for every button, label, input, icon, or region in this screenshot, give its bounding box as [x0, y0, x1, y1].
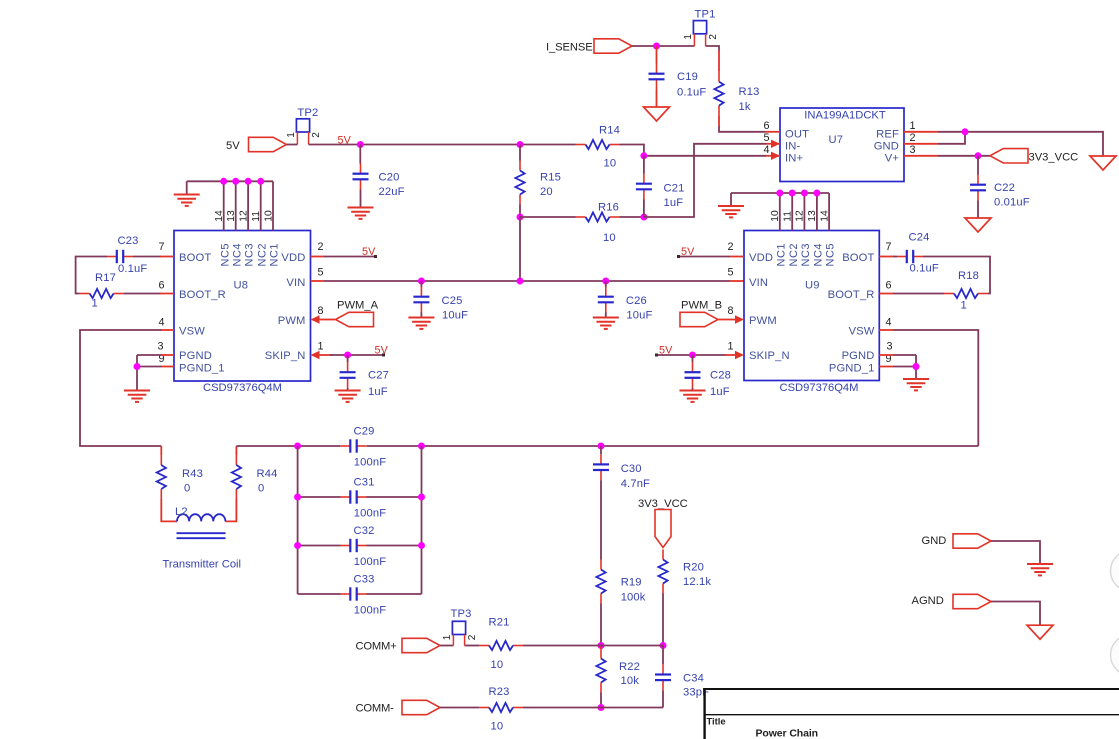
svg-text:NC3: NC3	[244, 243, 256, 267]
resistor R22	[596, 646, 640, 693]
svg-text:2: 2	[467, 634, 478, 640]
pin 2 stub (U8 VDD)	[311, 256, 325, 258]
wire IN- net to U7	[644, 144, 766, 217]
svg-text:100nF: 100nF	[354, 605, 386, 617]
svg-text:100nF: 100nF	[354, 556, 386, 568]
svg-text:NC2: NC2	[256, 243, 268, 267]
svg-text:3: 3	[886, 341, 892, 353]
svg-text:VIN: VIN	[286, 277, 305, 289]
svg-text:4: 4	[763, 144, 769, 156]
wire R13 to U7 OUT	[718, 116, 720, 126]
svg-text:R43: R43	[182, 468, 203, 480]
junction C32 left	[294, 542, 301, 549]
junction VIN/R15	[517, 278, 524, 285]
svg-text:NC5: NC5	[825, 243, 837, 267]
capacitor C21	[636, 156, 685, 217]
ground (REF net)	[1090, 156, 1116, 170]
pin 9 stub (U9 PGND_1)	[879, 366, 893, 368]
junction PGND (U9)	[913, 363, 920, 370]
svg-text:10: 10	[263, 210, 274, 222]
pin 1 arrow (U8 SKIP_N)	[311, 351, 333, 359]
svg-text:I_SENSE: I_SENSE	[546, 42, 593, 54]
junction 5V/C20	[357, 141, 364, 148]
svg-text:C20: C20	[379, 172, 400, 184]
capacitor C32	[341, 525, 387, 568]
pin 2 stub (U9 VDD)	[730, 256, 744, 258]
junction NC bus (U8)	[220, 178, 264, 185]
svg-text:3V3_VCC: 3V3_VCC	[638, 498, 688, 510]
svg-text:R19: R19	[621, 577, 642, 589]
svg-text:R23: R23	[489, 686, 510, 698]
ground (U8 PGND)	[124, 391, 150, 402]
svg-text:100k: 100k	[621, 592, 646, 604]
pin 6 stub (U8 BOOT_R)	[160, 293, 174, 295]
svg-text:10uF: 10uF	[626, 310, 652, 322]
svg-text:R16: R16	[598, 202, 619, 214]
junction C32 right	[418, 542, 425, 549]
test point TP3	[442, 608, 478, 646]
svg-text:3V3_VCC: 3V3_VCC	[1029, 152, 1079, 164]
pin 2 stub (U7 GND)	[904, 143, 938, 145]
wire PGND net (U8)	[137, 355, 162, 390]
wire COMM+ to TP3	[440, 645, 453, 647]
wire C19 to ground	[656, 90, 658, 108]
wire GND port to ground	[991, 541, 1040, 564]
svg-text:5: 5	[763, 132, 769, 144]
junction R22/comm- rail	[598, 704, 605, 711]
svg-text:2: 2	[311, 132, 322, 138]
pin 3 stub (U7 V+)	[904, 155, 938, 157]
svg-text:R20: R20	[683, 562, 704, 574]
junction VIN/C25	[418, 278, 425, 285]
wire C32 row	[298, 545, 422, 547]
svg-text:VIN: VIN	[749, 277, 768, 289]
svg-text:BOOT_R: BOOT_R	[179, 289, 226, 301]
svg-text:C27: C27	[368, 370, 389, 382]
svg-text:10: 10	[491, 721, 504, 733]
svg-text:1uF: 1uF	[710, 386, 730, 398]
resistor R44	[232, 446, 278, 499]
IC U8 CSD97376Q4M	[157, 231, 323, 395]
svg-text:8: 8	[727, 305, 733, 317]
svg-text:CSD97376Q4M: CSD97376Q4M	[780, 382, 859, 394]
junction C31 right	[418, 494, 425, 501]
svg-text:10k: 10k	[621, 675, 640, 687]
wire R44 to coil	[225, 499, 236, 521]
pin 5 stub (U7 IN-)	[766, 140, 780, 148]
wire C31 row	[298, 496, 422, 498]
svg-text:6: 6	[158, 280, 164, 292]
svg-text:NC3: NC3	[800, 243, 812, 267]
wire BOOT net (U8)	[76, 257, 161, 294]
svg-text:Title: Title	[707, 716, 726, 727]
junction rail/cap-bank left	[294, 443, 301, 450]
svg-text:NC2: NC2	[788, 243, 800, 267]
svg-text:2: 2	[317, 241, 323, 253]
svg-text:GND: GND	[874, 141, 899, 153]
svg-text:C33: C33	[354, 574, 375, 586]
wire comm+ rail to R20 column	[601, 645, 663, 647]
title block border	[703, 688, 1119, 739]
port COMM-	[356, 700, 441, 714]
ground (C28)	[680, 391, 706, 402]
pin 8 arrow (U9 PWM)	[718, 315, 744, 323]
wire cap bank right column	[421, 446, 423, 594]
pin 1 arrow (U9 SKIP_N)	[726, 351, 744, 359]
svg-text:REF: REF	[876, 129, 899, 141]
resistor R23	[479, 686, 523, 733]
svg-text:4.7nF: 4.7nF	[621, 478, 650, 490]
resistor R13	[714, 72, 759, 116]
junction REF/GND	[962, 128, 969, 135]
svg-text:1k: 1k	[739, 101, 751, 113]
svg-text:0.1uF: 0.1uF	[910, 263, 939, 275]
port 5V	[226, 137, 287, 152]
svg-text:PGND_1: PGND_1	[829, 363, 875, 375]
junction R19/comm+ rail	[598, 642, 605, 649]
svg-text:BOOT_R: BOOT_R	[828, 289, 875, 301]
svg-text:C29: C29	[354, 426, 375, 438]
svg-text:V+: V+	[885, 153, 899, 165]
svg-text:11: 11	[251, 211, 262, 222]
junction C21/IN-	[640, 214, 647, 221]
svg-text:1uF: 1uF	[664, 197, 684, 209]
wire BOOT net (U9)	[893, 257, 990, 294]
junction rail/C30	[598, 443, 605, 450]
pin numbers 10-14 (U9 top)	[770, 210, 830, 222]
svg-text:VSW: VSW	[179, 326, 205, 338]
svg-text:C22: C22	[994, 182, 1015, 194]
port AGND	[912, 594, 992, 608]
svg-text:3: 3	[157, 341, 163, 353]
wire R15 junction to VIN rail	[519, 217, 521, 281]
svg-text:5V: 5V	[375, 345, 389, 357]
junction C31 left	[294, 494, 301, 501]
resistor R18	[944, 270, 988, 312]
wire C34 to comm- rail	[662, 690, 664, 707]
svg-text:7: 7	[885, 241, 891, 253]
wire R17 to BOOT_R	[124, 293, 161, 295]
IC U7 INA199A1DCKT	[763, 108, 915, 182]
svg-text:IN-: IN-	[785, 141, 800, 153]
svg-text:INA199A1DCKT: INA199A1DCKT	[804, 110, 886, 122]
pin 6 stub (U9 BOOT_R)	[879, 293, 893, 295]
port GND	[922, 534, 992, 548]
wire GND pin to REF net	[938, 132, 965, 144]
wire VDD 5V (U8)	[324, 256, 377, 258]
svg-text:R21: R21	[489, 617, 510, 629]
wire coil output rail	[236, 445, 340, 447]
svg-text:CSD97376Q4M: CSD97376Q4M	[203, 382, 282, 394]
capacitor C20	[353, 145, 405, 208]
svg-text:Power Chain: Power Chain	[756, 728, 819, 739]
svg-text:1: 1	[92, 298, 98, 310]
svg-text:C26: C26	[626, 295, 647, 307]
svg-text:10uF: 10uF	[442, 310, 468, 322]
pin 8 arrow (U8 PWM)	[311, 315, 336, 323]
capacitor C19	[649, 46, 707, 99]
svg-text:R17: R17	[95, 272, 116, 284]
svg-text:SKIP_N: SKIP_N	[265, 350, 306, 362]
svg-text:C34: C34	[683, 673, 704, 685]
svg-text:13: 13	[807, 210, 818, 222]
wire cap bank left column	[297, 446, 299, 594]
svg-text:C30: C30	[621, 463, 642, 475]
svg-text:100nF: 100nF	[354, 457, 386, 469]
wire SKIP_N 5V (U9)	[656, 354, 726, 356]
wire R21 to R19 column	[523, 645, 601, 647]
svg-text:BOOT: BOOT	[179, 252, 211, 264]
svg-text:R14: R14	[599, 125, 620, 137]
svg-text:12: 12	[238, 210, 249, 222]
svg-text:U8: U8	[234, 280, 249, 292]
capacitor C23	[107, 235, 147, 275]
svg-text:C19: C19	[677, 71, 698, 83]
wire U8 NC bus	[187, 181, 273, 230]
junction I_SENSE/C19	[653, 43, 660, 50]
ground (U9 NC bus)	[718, 206, 744, 217]
svg-text:1: 1	[317, 341, 323, 353]
capacitor C30	[593, 446, 650, 490]
svg-text:PWM: PWM	[749, 315, 777, 327]
svg-text:C21: C21	[664, 183, 685, 195]
svg-text:NC1: NC1	[775, 243, 787, 267]
svg-text:BOOT: BOOT	[842, 252, 874, 264]
svg-text:R18: R18	[958, 270, 979, 282]
svg-text:L2: L2	[175, 506, 188, 518]
capacitor C22	[970, 156, 1030, 218]
svg-text:3: 3	[909, 144, 915, 156]
ground (C27)	[335, 391, 361, 402]
svg-text:TP3: TP3	[451, 608, 472, 620]
svg-text:R13: R13	[739, 86, 760, 98]
svg-text:2: 2	[708, 34, 719, 40]
svg-text:1: 1	[909, 120, 915, 132]
resistor R19	[596, 560, 645, 604]
svg-text:PGND_1: PGND_1	[179, 363, 225, 375]
wire BOOT_R to R18	[893, 293, 944, 295]
resistor R43	[157, 446, 203, 499]
svg-text:NC5: NC5	[219, 243, 231, 267]
pin numbers 14-10 (U8 top)	[214, 210, 274, 222]
port 3V3_VCC (R20)	[638, 498, 688, 548]
pin 5 stub (U9 VIN)	[730, 280, 744, 282]
capacitor C26	[598, 281, 653, 322]
svg-text:2: 2	[909, 132, 915, 144]
svg-text:VDD: VDD	[749, 252, 773, 264]
svg-text:7: 7	[158, 241, 164, 253]
capacitor C34	[655, 646, 709, 699]
wire R20 to comm rail	[662, 594, 664, 646]
wire VDD 5V (U9)	[678, 256, 730, 258]
wire R16 to IN- net	[620, 216, 644, 218]
svg-text:R15: R15	[540, 172, 561, 184]
svg-text:1: 1	[286, 132, 297, 138]
wire TP3 to R21	[465, 645, 479, 647]
svg-text:100nF: 100nF	[354, 508, 386, 520]
svg-text:10: 10	[604, 158, 617, 170]
capacitor C31	[341, 477, 387, 520]
wire C33 row	[298, 593, 422, 595]
svg-text:1: 1	[727, 341, 733, 353]
svg-text:C31: C31	[354, 477, 375, 489]
ground (C26)	[593, 318, 619, 329]
svg-text:5: 5	[727, 267, 733, 279]
port COMM+	[356, 638, 441, 652]
svg-text:C28: C28	[710, 370, 731, 382]
svg-text:1: 1	[683, 34, 694, 40]
ground (C25)	[408, 318, 434, 329]
wire TP1 pin 2 to R13	[706, 46, 719, 51]
resistor R21	[479, 617, 523, 672]
port I_SENSE	[546, 39, 632, 54]
svg-text:6: 6	[763, 120, 769, 132]
svg-text:C32: C32	[354, 525, 375, 537]
wire SKIP_N 5V (U8)	[330, 354, 385, 356]
wire R23 to C34 column	[523, 707, 663, 709]
ground (AGND port)	[1027, 625, 1053, 639]
capacitor C25	[413, 281, 468, 322]
resistor R16	[576, 202, 620, 245]
pin 9 stub (U8 PGND_1)	[161, 366, 174, 368]
wire U9 NC bus	[731, 193, 829, 231]
wire R15 to R16	[519, 205, 521, 218]
svg-text:10: 10	[603, 232, 616, 244]
svg-text:PWM_B: PWM_B	[681, 300, 722, 312]
svg-text:TP1: TP1	[695, 9, 716, 21]
junction NC bus (U9)	[776, 190, 820, 197]
junction VIN/C26	[602, 278, 609, 285]
svg-text:Transmitter Coil: Transmitter Coil	[163, 559, 242, 571]
svg-text:PGND: PGND	[842, 350, 875, 362]
wire I_SENSE net	[632, 45, 695, 47]
svg-text:4: 4	[885, 317, 891, 329]
port PWM_B	[680, 300, 722, 327]
svg-text:IN+: IN+	[785, 153, 803, 165]
junction PGND (U8)	[134, 363, 141, 370]
pin 4 stub (U8 VSW)	[160, 329, 174, 331]
capacitor C28	[685, 355, 731, 398]
pin 7 stub (U9 BOOT)	[879, 256, 893, 258]
svg-text:20: 20	[540, 186, 553, 198]
ground (U8 NC bus)	[174, 195, 200, 206]
capacitor C29	[341, 426, 387, 469]
ground (C20)	[348, 208, 374, 219]
svg-text:PWM: PWM	[278, 315, 306, 327]
IC U9 CSD97376Q4M	[727, 231, 892, 395]
svg-text:NC1: NC1	[269, 243, 281, 267]
resistor R14	[576, 125, 620, 170]
svg-text:U7: U7	[829, 134, 844, 146]
pin 3 stub (U8 PGND)	[161, 354, 174, 356]
test point TP1	[683, 9, 719, 47]
wire VIN rail	[324, 280, 730, 282]
capacitor C33	[341, 574, 387, 617]
svg-text:0.1uF: 0.1uF	[677, 87, 706, 99]
ground (C22)	[965, 218, 991, 232]
pin 4 stub (U9 VSW)	[879, 329, 893, 331]
svg-text:VSW: VSW	[849, 326, 875, 338]
wire VSW net (U8) to coil rail	[80, 330, 161, 446]
svg-text:C25: C25	[442, 295, 463, 307]
svg-text:1: 1	[961, 300, 967, 312]
svg-text:C23: C23	[118, 235, 139, 247]
pin 6 stub (U7 OUT)	[765, 131, 780, 133]
svg-text:PWM_A: PWM_A	[337, 300, 379, 312]
svg-text:10: 10	[491, 659, 504, 671]
svg-text:1: 1	[442, 634, 453, 640]
wire AGND port to ground	[991, 602, 1040, 626]
wire 5V rail	[287, 144, 576, 146]
svg-text:0.01uF: 0.01uF	[994, 197, 1030, 209]
svg-text:NC4: NC4	[813, 243, 825, 267]
port PWM_A	[336, 300, 379, 327]
ground (U9 PGND)	[903, 379, 929, 390]
svg-text:5: 5	[317, 267, 323, 279]
svg-text:2: 2	[727, 241, 733, 253]
capacitor C24	[897, 232, 939, 275]
wire R14 to IN+ net	[620, 145, 644, 156]
wire R22 to comm- rail	[600, 693, 602, 708]
wire PGND net (U9)	[893, 355, 916, 379]
wire VSW net (U9) to coil rail	[893, 330, 978, 446]
svg-text:4: 4	[158, 317, 164, 329]
svg-text:14: 14	[214, 210, 225, 222]
svg-text:0.1uF: 0.1uF	[118, 263, 147, 275]
svg-text:C24: C24	[909, 232, 930, 244]
inductor L2	[175, 506, 226, 538]
ground (GND port)	[1027, 564, 1053, 575]
junction 5V/R15	[517, 141, 524, 148]
svg-text:12.1k: 12.1k	[683, 576, 711, 588]
wire R43 to coil	[161, 499, 177, 521]
svg-text:OUT: OUT	[785, 129, 809, 141]
test point TP2	[286, 107, 322, 145]
svg-text:R44: R44	[257, 468, 278, 480]
svg-text:5V: 5V	[226, 140, 240, 152]
junction R20/C34	[660, 642, 667, 649]
wire REF net to ground	[938, 132, 1103, 156]
resistor R20	[658, 550, 711, 594]
svg-text:8: 8	[317, 305, 323, 317]
wire R15 bottom to R16	[520, 216, 576, 218]
svg-text:AGND: AGND	[912, 595, 944, 607]
svg-text:0: 0	[258, 483, 264, 495]
svg-text:PGND: PGND	[179, 350, 212, 362]
svg-text:GND: GND	[922, 535, 947, 547]
svg-text:1uF: 1uF	[368, 386, 388, 398]
svg-text:14: 14	[819, 210, 830, 222]
capacitor C27	[340, 355, 389, 398]
svg-text:R22: R22	[619, 661, 640, 673]
svg-text:NC4: NC4	[231, 243, 243, 267]
resistor R17	[80, 272, 124, 310]
svg-text:11: 11	[783, 211, 794, 222]
junction rail/cap-bank right	[418, 443, 425, 450]
svg-text:COMM-: COMM-	[356, 703, 395, 715]
wire COMM- to R23	[440, 707, 479, 709]
svg-text:22uF: 22uF	[379, 186, 405, 198]
pin 4 stub (U7 IN+)	[766, 152, 780, 160]
junction IN+/C21	[640, 152, 647, 159]
pin 1 stub (U7 REF)	[904, 131, 938, 133]
resistor R15	[515, 145, 561, 205]
junction V+/C22	[975, 152, 982, 159]
pin 7 stub (U8 BOOT)	[160, 256, 174, 258]
wire R19 to comm rail	[600, 604, 602, 646]
ground (C19)	[644, 107, 670, 121]
svg-text:VDD: VDD	[281, 252, 305, 264]
